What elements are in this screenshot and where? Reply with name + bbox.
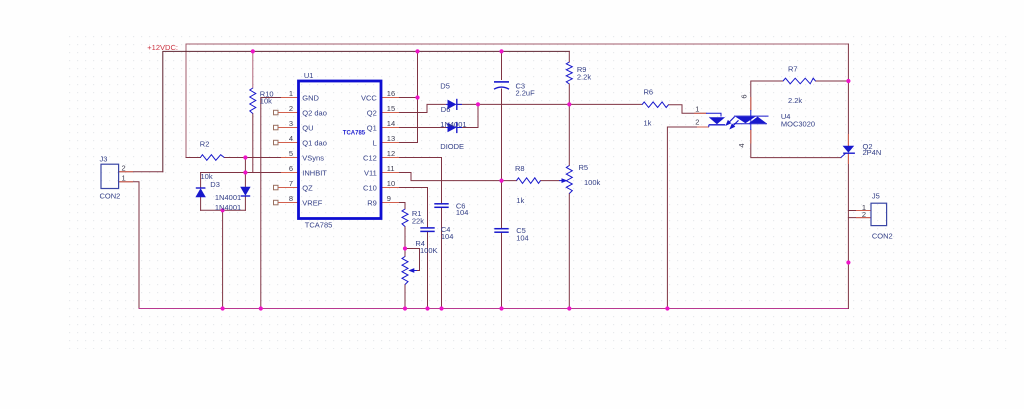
svg-text:13: 13 xyxy=(387,134,395,143)
svg-text:1N4001: 1N4001 xyxy=(440,120,466,129)
connector J5 body xyxy=(871,203,887,225)
svg-text:1k: 1k xyxy=(516,196,524,205)
svg-text:14: 14 xyxy=(387,119,395,128)
svg-text:TCA785: TCA785 xyxy=(305,220,333,229)
svg-text:8: 8 xyxy=(289,194,293,203)
junction VSync R2 node xyxy=(243,155,247,159)
U1 pin 3 no-connect square xyxy=(274,125,279,130)
svg-text:2: 2 xyxy=(122,163,126,172)
wire pin11 V11 to R8 line xyxy=(399,173,517,181)
svg-text:9: 9 xyxy=(387,194,391,203)
svg-text:D3: D3 xyxy=(210,180,220,189)
svg-text:R7: R7 xyxy=(788,65,798,74)
wire pin15 Q2 to D5 xyxy=(399,104,446,112)
svg-text:1k: 1k xyxy=(644,119,652,128)
svg-text:R6: R6 xyxy=(644,88,654,97)
svg-text:GND: GND xyxy=(302,93,319,102)
U1 pin 14 stub xyxy=(381,127,399,129)
svg-text:V11: V11 xyxy=(364,168,377,177)
potentiometer R5 body xyxy=(566,166,572,194)
junction GND net rail xyxy=(259,306,263,310)
wire diode junction to R9/R5 node xyxy=(478,103,569,105)
diode D5 xyxy=(446,99,462,110)
wire opto pin4 to Q2 gate xyxy=(751,130,841,158)
svg-text:2.2k: 2.2k xyxy=(788,96,802,105)
wire +12V distribution line xyxy=(163,51,570,171)
svg-text:10: 10 xyxy=(387,179,395,188)
svg-text:2P4N: 2P4N xyxy=(863,148,882,157)
svg-text:104: 104 xyxy=(456,208,469,217)
svg-text:INHBIT: INHBIT xyxy=(302,168,327,177)
svg-text:U1: U1 xyxy=(304,71,314,80)
wire C3 top to +12V xyxy=(501,51,503,79)
wire node to R6 xyxy=(569,103,642,105)
wire R7 right to Q2 anode line xyxy=(816,80,849,82)
wire R8 node to C5 xyxy=(501,181,503,229)
svg-text:R5: R5 xyxy=(579,163,589,172)
junction R7 right at Q2 line xyxy=(846,79,850,83)
svg-text:1N4001: 1N4001 xyxy=(215,193,241,202)
resistor R10 xyxy=(250,88,256,114)
svg-text:R2: R2 xyxy=(200,139,210,148)
svg-text:1: 1 xyxy=(289,89,293,98)
wire bottom ground rail xyxy=(139,308,848,310)
Q2 pin stubs xyxy=(847,134,849,146)
wire pin13 L xyxy=(399,142,418,144)
U1 pin 1 stub xyxy=(281,97,299,99)
U1 pin 10 stub xyxy=(381,187,399,189)
wire opto pin2 to ground rail xyxy=(667,127,708,309)
wire C3 bottom down to R8 line xyxy=(501,89,503,181)
U1 pin 5 stub xyxy=(281,157,299,159)
U1 pin 8 stub xyxy=(278,202,299,204)
capacitor C5 xyxy=(494,229,508,233)
opto U4 light arrows xyxy=(725,117,738,130)
U1 pin 9 stub xyxy=(381,202,399,204)
svg-text:104: 104 xyxy=(516,233,529,242)
svg-text:16: 16 xyxy=(387,89,395,98)
U1 pin 12 stub xyxy=(381,157,399,159)
wire J3 pin1 down to ground rail xyxy=(119,182,139,309)
svg-text:+12VDC:: +12VDC: xyxy=(147,43,178,52)
svg-text:100k: 100k xyxy=(584,178,601,187)
U1 pin 15 stub xyxy=(381,112,399,114)
wire J5 pin1 xyxy=(848,210,871,212)
wire pin16 VCC to +12V vertical xyxy=(399,97,418,99)
capacitor C6 xyxy=(434,204,448,208)
svg-text:D6: D6 xyxy=(441,105,451,114)
svg-text:4: 4 xyxy=(289,134,293,143)
svg-text:1: 1 xyxy=(122,174,126,183)
op-amp U1 TCA785 body xyxy=(299,81,382,219)
junction opto pin2 ground xyxy=(665,306,669,310)
wire R8 right to R5 wiper xyxy=(541,180,560,182)
U4 pin 6 stub xyxy=(750,97,752,111)
svg-text:100K: 100K xyxy=(420,246,438,255)
wire top rail down to Q2 anode xyxy=(847,44,849,146)
wire D3 bottom edge xyxy=(201,209,246,211)
wire R9 bottom to node xyxy=(568,84,570,104)
svg-text:R8: R8 xyxy=(515,164,525,173)
U1 pin 8 no-connect square xyxy=(274,200,279,205)
junction C5 ground xyxy=(499,306,503,310)
capacitor C4 xyxy=(420,228,434,232)
resistor R2 xyxy=(200,155,224,161)
svg-text:VREF: VREF xyxy=(302,198,322,207)
wire R10 bottom to pin6 line xyxy=(252,114,254,173)
wire +12V top rail xyxy=(186,44,848,158)
J3 pin 1 stub xyxy=(119,181,133,183)
U1 pin 16 stub xyxy=(381,97,399,99)
svg-text:CON2: CON2 xyxy=(872,232,893,241)
svg-text:5: 5 xyxy=(289,149,293,158)
wire R4 bottom to ground rail xyxy=(404,285,406,309)
U1 pin 3 stub xyxy=(278,127,299,129)
svg-text:2: 2 xyxy=(862,210,866,219)
junction R9 bottom node xyxy=(567,102,571,106)
svg-text:2.2uF: 2.2uF xyxy=(516,89,536,98)
connector J3 body xyxy=(101,164,119,188)
svg-text:2.2k: 2.2k xyxy=(577,73,591,82)
U1 pin 6 stub xyxy=(281,172,299,174)
U1 pin 11 stub xyxy=(381,172,399,174)
U1 pin 7 stub xyxy=(278,187,299,189)
svg-text:15: 15 xyxy=(387,104,395,113)
svg-text:6: 6 xyxy=(289,164,293,173)
svg-text:12: 12 xyxy=(387,149,395,158)
U1 pin 13 stub xyxy=(381,142,399,144)
svg-text:10k: 10k xyxy=(260,96,272,105)
junction R8/C5 node xyxy=(499,179,503,183)
junction pin16 VCC xyxy=(415,95,419,99)
wire pin14 Q1 to D6 xyxy=(399,127,446,129)
svg-text:3: 3 xyxy=(289,119,293,128)
junction C6 ground xyxy=(439,306,443,310)
wire R5 bottom to ground rail xyxy=(568,194,570,309)
junction C4 ground xyxy=(425,306,429,310)
potentiometer R4 wiper arrow xyxy=(412,270,417,272)
wire C6 bottom to ground rail xyxy=(441,208,443,309)
svg-text:6: 6 xyxy=(740,94,749,98)
wire J5 pin2 xyxy=(848,217,871,219)
potentiometer R5 wiper arrow xyxy=(559,180,564,182)
wire node to R5 top xyxy=(568,104,570,165)
diode D6 xyxy=(446,122,462,133)
svg-text:2: 2 xyxy=(289,104,293,113)
junction R4 wiper node xyxy=(403,246,407,250)
U1 pin 2 no-connect square xyxy=(274,110,279,115)
diode D3 right (cathode down) xyxy=(240,187,250,196)
wire pin1 GND net xyxy=(261,98,281,309)
U1 pin 2 stub xyxy=(278,112,299,114)
svg-text:L: L xyxy=(373,138,377,147)
capacitor C3 (polarized) xyxy=(494,82,509,89)
junction D3 ground xyxy=(221,306,225,310)
svg-text:DIODE: DIODE xyxy=(440,142,464,151)
wire pin10 C10 to C4 xyxy=(399,188,428,228)
svg-text:2: 2 xyxy=(695,118,699,127)
wire D3 bottom to ground rail xyxy=(222,210,224,308)
wire node VSync to D3 vertical xyxy=(244,158,246,173)
svg-text:C10: C10 xyxy=(363,183,377,192)
svg-text:TCA785: TCA785 xyxy=(343,131,366,137)
transistor Q2 triac 2P4N xyxy=(841,146,855,158)
junction on J5 vertical xyxy=(846,260,850,264)
svg-text:4: 4 xyxy=(737,143,746,147)
svg-text:MOC3020: MOC3020 xyxy=(781,120,815,129)
svg-text:J3: J3 xyxy=(100,154,108,163)
wire R9 top lead xyxy=(568,51,570,62)
potentiometer R4 body xyxy=(402,257,408,285)
svg-text:Q2: Q2 xyxy=(367,108,377,117)
U1 pin 4 stub xyxy=(278,142,299,144)
svg-text:Q2 dao: Q2 dao xyxy=(302,108,327,117)
J5 pin 2 stub xyxy=(856,217,871,219)
junction INHIBIT node xyxy=(243,170,247,174)
svg-text:Q1: Q1 xyxy=(367,123,377,132)
wire D3 left diode branch xyxy=(200,173,202,188)
U4 pin 2 stub xyxy=(697,126,709,128)
resistor R6 xyxy=(642,102,669,108)
junction D3 bottom xyxy=(221,208,225,212)
svg-text:R9: R9 xyxy=(367,198,377,207)
svg-text:VSyns: VSyns xyxy=(302,153,324,162)
wire C5 bottom to ground rail xyxy=(501,232,503,308)
wire R2 leads xyxy=(186,157,200,159)
svg-text:7: 7 xyxy=(289,179,293,188)
U4 pin 4 stub xyxy=(750,130,752,144)
wire R10 top to +12V xyxy=(252,51,254,88)
resistor R9 xyxy=(566,62,572,84)
junction R10 top on +12V xyxy=(251,49,255,53)
junction R4 ground xyxy=(403,306,407,310)
U4 pin 1 stub xyxy=(694,112,706,114)
wire INHIBIT pin6 line xyxy=(201,172,281,174)
wire R6 to opto pin1 xyxy=(669,105,707,114)
svg-text:1N4001: 1N4001 xyxy=(215,203,241,212)
wire opto pin6 up to R7 xyxy=(751,81,783,110)
svg-text:J5: J5 xyxy=(872,191,880,200)
svg-text:CON2: CON2 xyxy=(100,191,121,200)
junction D5/D6 cathodes xyxy=(476,102,480,106)
svg-text:QU: QU xyxy=(302,123,313,132)
svg-text:C12: C12 xyxy=(363,153,377,162)
wire D3 right diode branch xyxy=(244,173,246,187)
wire Q2 cathode down to J5 and ground rail xyxy=(847,153,849,308)
svg-text:11: 11 xyxy=(387,164,395,173)
resistor R1 xyxy=(402,209,408,227)
svg-text:QZ: QZ xyxy=(302,183,313,192)
junction R5 ground xyxy=(567,306,571,310)
resistor R7 xyxy=(783,78,816,84)
resistor R8 xyxy=(517,178,541,184)
opto U4 LED xyxy=(706,113,725,127)
diode D3 left (cathode up) xyxy=(195,188,205,197)
wire D5 cathode to junction xyxy=(458,103,478,105)
U1 pin 7 no-connect square xyxy=(274,185,279,190)
svg-text:D5: D5 xyxy=(440,82,450,91)
svg-text:104: 104 xyxy=(441,232,454,241)
wire J3 pin2 to +12V xyxy=(119,171,163,173)
J3 pin 2 stub xyxy=(119,171,133,173)
opto U4 triac xyxy=(734,110,769,130)
J5 pin 1 stub xyxy=(856,210,871,212)
U1 pin 4 no-connect square xyxy=(274,140,279,145)
wire pin12 C12 to C6 xyxy=(399,158,442,204)
wire pin9 R9pin to R1 xyxy=(399,203,405,210)
svg-text:Q1 dao: Q1 dao xyxy=(302,138,327,147)
junction pin16/13 vertical on +12V xyxy=(415,49,419,53)
wire R4 wiper branch xyxy=(405,249,420,271)
junction C3 top on +12V xyxy=(499,49,503,53)
wire C4 bottom to ground rail xyxy=(427,231,429,308)
wire R1 bottom to R4 top xyxy=(404,227,406,257)
wire D6 cathode up to junction xyxy=(458,104,478,127)
svg-text:1: 1 xyxy=(695,105,699,114)
svg-text:22k: 22k xyxy=(412,217,424,226)
svg-text:VCC: VCC xyxy=(361,93,377,102)
